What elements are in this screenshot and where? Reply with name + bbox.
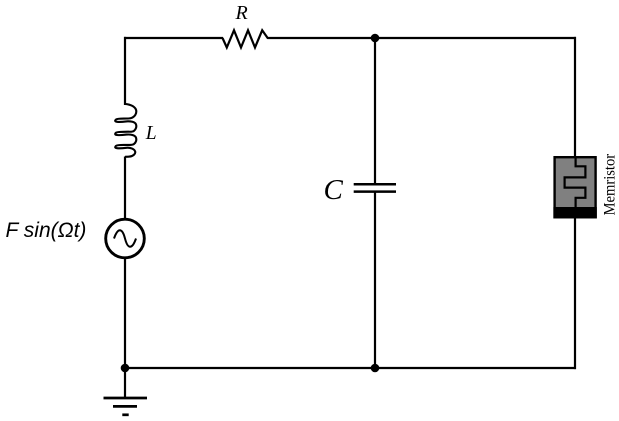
wire middle vertical lower [374,192,376,368]
inductor L [115,104,136,157]
ground [104,368,148,415]
svg-text:L: L [145,123,157,144]
sine wave inside source [114,230,136,247]
resistor R [223,30,269,47]
wire top-left horizontal [124,37,223,39]
wire left vertical lower [124,258,126,369]
memristor M1 meander [565,156,586,208]
wire bottom horizontal [124,367,576,369]
svg-text:C: C [324,174,344,206]
wire left vertical upper [124,37,126,105]
wire left vertical mid [124,157,126,220]
capacitor C [354,184,396,191]
junction node bottom-left [121,364,130,373]
junction node bottom-middle [371,364,380,373]
wire right vertical upper [574,37,576,158]
memristor M1 bottom electrode [553,207,596,218]
memristor M1 body [555,157,596,217]
svg-text:F sin(Ωt): F sin(Ωt) [6,219,87,242]
svg-text:Memristor: Memristor [602,153,619,215]
wire middle vertical upper [374,38,376,184]
wire right vertical lower [574,218,576,369]
svg-text:R: R [235,2,248,24]
voltage source V1 [106,219,145,258]
wire top-right horizontal [268,37,577,39]
junction node top-middle [371,34,380,43]
